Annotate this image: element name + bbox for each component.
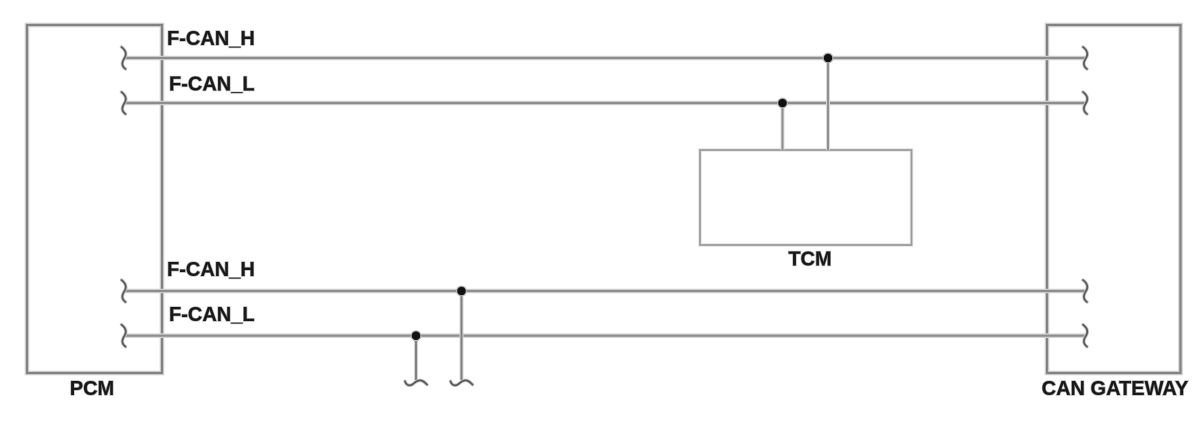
TCM box [700, 150, 912, 245]
connector squiggle CAN GATEWAY F-CAN_L (bottom) [1083, 325, 1087, 347]
svg-text:PCM: PCM [70, 378, 114, 400]
PCM box [27, 25, 162, 373]
wire F-CAN_H (top) [125, 56, 1087, 61]
continuation squiggle below bottom F-CAN_L stub [405, 380, 427, 385]
svg-text:CAN GATEWAY: CAN GATEWAY [1042, 378, 1189, 400]
PCM label [70, 378, 114, 400]
svg-text:F-CAN_H: F-CAN_H [167, 28, 255, 50]
connector squiggle PCM F-CAN_H (bottom) [122, 280, 126, 302]
wire TCM drop from F-CAN_H [826, 58, 830, 150]
CAN GATEWAY box [1047, 25, 1181, 373]
wire stub drop from bottom F-CAN_L [414, 336, 418, 380]
junction dot on top F-CAN_H at TCM drop [823, 53, 834, 64]
connector squiggle CAN GATEWAY F-CAN_L (top) [1083, 92, 1087, 114]
connector squiggle CAN GATEWAY F-CAN_H (top) [1083, 47, 1087, 69]
label F-CAN_H (top) [167, 28, 255, 50]
connector squiggle CAN GATEWAY F-CAN_H (bottom) [1083, 280, 1087, 302]
wire F-CAN_L (top) [125, 101, 1087, 106]
wire stub drop from bottom F-CAN_H [460, 291, 464, 380]
label F-CAN_L (top) [169, 74, 255, 96]
label F-CAN_L (bottom) [169, 304, 255, 326]
svg-text:TCM: TCM [788, 249, 831, 271]
connector squiggle PCM F-CAN_L (top) [122, 92, 126, 114]
junction dot on bottom F-CAN_L at stub [411, 330, 422, 341]
junction dot on bottom F-CAN_H at stub [456, 286, 467, 297]
continuation squiggle below bottom F-CAN_H stub [451, 380, 473, 385]
TCM label [788, 249, 831, 271]
svg-text:F-CAN_H: F-CAN_H [167, 259, 255, 281]
wire F-CAN_H (bottom) [125, 289, 1087, 294]
label F-CAN_H (bottom) [167, 259, 255, 281]
wire F-CAN_L (bottom) [125, 333, 1087, 338]
junction dot on top F-CAN_L at TCM drop [777, 98, 788, 109]
connector squiggle PCM F-CAN_L (bottom) [122, 325, 126, 347]
svg-text:F-CAN_L: F-CAN_L [169, 304, 255, 326]
wire TCM drop from F-CAN_L [781, 103, 785, 150]
svg-text:F-CAN_L: F-CAN_L [169, 74, 255, 96]
connector squiggle PCM F-CAN_H (top) [122, 47, 126, 69]
CAN GATEWAY label [1042, 378, 1189, 400]
